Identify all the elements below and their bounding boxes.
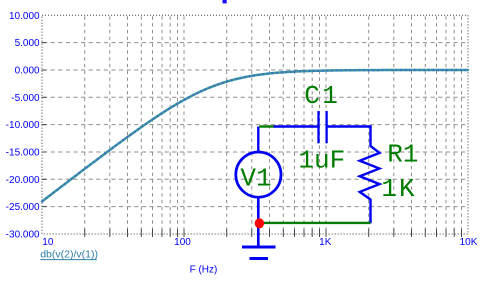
svg-text:-15.000: -15.000 xyxy=(6,148,40,159)
svg-text:db(v(2)/v(1)): db(v(2)/v(1)) xyxy=(40,249,98,261)
svg-text:R1: R1 xyxy=(387,139,418,169)
svg-text:V1: V1 xyxy=(240,164,271,194)
svg-text:1uF: 1uF xyxy=(298,146,345,176)
svg-text:10K: 10K xyxy=(460,237,478,248)
svg-text:1K: 1K xyxy=(381,174,416,204)
svg-text:-10.000: -10.000 xyxy=(6,120,40,131)
svg-text:5.000: 5.000 xyxy=(15,38,40,49)
svg-text:10.000: 10.000 xyxy=(9,11,40,22)
svg-text:10: 10 xyxy=(42,237,54,248)
svg-text:1K: 1K xyxy=(319,237,332,248)
svg-text:C1: C1 xyxy=(304,81,340,111)
svg-text:100: 100 xyxy=(174,237,191,248)
svg-text:0.000: 0.000 xyxy=(15,66,40,77)
svg-text:-20.000: -20.000 xyxy=(6,175,40,186)
svg-text:F (Hz): F (Hz) xyxy=(190,264,218,275)
svg-text:-30.000: -30.000 xyxy=(6,230,40,241)
svg-text:-25.000: -25.000 xyxy=(6,202,40,213)
svg-text:-5.000: -5.000 xyxy=(11,93,40,104)
